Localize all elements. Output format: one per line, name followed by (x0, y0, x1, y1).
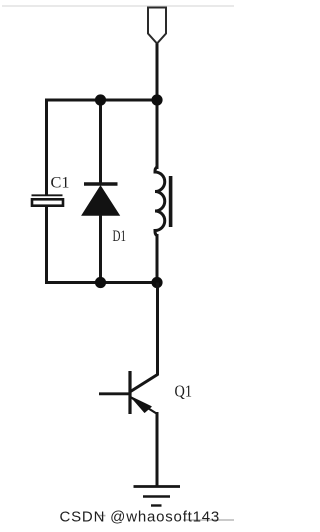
wire: bottom rail horizontal (45, 281, 157, 284)
diode D1 (82, 184, 119, 215)
junction node: bottom rail / inductor (151, 277, 162, 288)
wire: connector to top rail (156, 44, 159, 101)
svg-text:Q1: Q1 (175, 382, 193, 401)
wire: top rail horizontal (45, 99, 157, 102)
wire: bottom rail to Q1 collector (156, 283, 159, 376)
label D1 (113, 228, 127, 245)
wire: inductor to bottom rail (156, 234, 159, 284)
wire: middle branch top (to diode cathode) (99, 100, 102, 184)
wire: right branch top (to inductor) (156, 100, 159, 169)
label C1 (51, 175, 70, 192)
junction node: top rail / diode (95, 94, 106, 105)
top faint separator line (2, 5, 234, 7)
capacitor C1 (32, 195, 64, 205)
wire: left branch down to capacitor (45, 99, 48, 197)
wire: Q1 emitter to ground (156, 412, 159, 487)
inductor L1 (coil with core bar) (155, 167, 172, 236)
connector J1 (pentagon terminal) (148, 8, 166, 44)
junction node: bottom rail / diode (95, 277, 106, 288)
svg-text:C1: C1 (51, 175, 70, 192)
svg-text:D1: D1 (113, 228, 127, 245)
label Q1 (175, 382, 193, 401)
junction node: top rail / inductor (151, 94, 162, 105)
transistor Q1 (NPN) (99, 371, 158, 414)
svg-text:CSDN @whaosoft143: CSDN @whaosoft143 (60, 509, 221, 526)
wire: capacitor to bottom rail (45, 206, 48, 284)
ground (134, 487, 181, 506)
wire: diode anode to bottom rail (99, 215, 102, 284)
watermark text (60, 509, 235, 526)
